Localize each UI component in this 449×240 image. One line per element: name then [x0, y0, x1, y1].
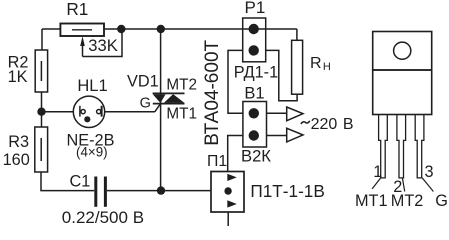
wire top rail	[42, 28, 60, 30]
svg-text:МТ2: МТ2	[391, 192, 424, 210]
svg-text:R3: R3	[8, 133, 29, 151]
connector P1	[243, 18, 266, 62]
svg-text:220: 220	[311, 116, 338, 133]
svg-text:РД1-1: РД1-1	[234, 64, 278, 82]
svg-text:Р1: Р1	[245, 0, 266, 17]
svg-text:1: 1	[373, 163, 382, 181]
wire HL1 to gate	[105, 104, 161, 112]
svg-text:C1: C1	[70, 173, 91, 191]
svg-text:В1: В1	[244, 84, 264, 102]
wire R2 to R3	[41, 92, 43, 127]
TO-220 leg 3	[415, 115, 424, 178]
leader line MT1 to leg1	[372, 178, 381, 189]
svg-text:МТ1: МТ1	[355, 192, 388, 210]
svg-text:МТ1: МТ1	[166, 106, 197, 123]
svg-text:П1: П1	[207, 153, 227, 170]
switch P1	[211, 172, 244, 213]
wire P1 to RH top	[296, 29, 298, 40]
svg-text:G: G	[140, 96, 151, 112]
resistor R2	[35, 50, 47, 92]
junction dot left rail / HL1	[37, 108, 45, 116]
svg-text:HL1: HL1	[77, 77, 107, 95]
svg-text:1K: 1K	[8, 68, 28, 86]
svg-text:R: R	[310, 55, 322, 72]
label ~220 V	[301, 121, 310, 124]
junction dot triac / bottom rail	[157, 186, 165, 194]
svg-text:VD1: VD1	[127, 73, 159, 91]
triac VD1	[153, 93, 185, 103]
svg-text:Н: Н	[323, 61, 331, 73]
wire switch bottom stub	[227, 212, 229, 226]
wiper arrow R1	[80, 36, 85, 56]
plug pin lower	[267, 128, 304, 142]
junction dot triac / top rail	[157, 25, 165, 33]
capacitor C1	[96, 177, 106, 207]
TO-220 body	[373, 70, 432, 115]
junction dot wiper / top rail	[117, 25, 125, 33]
TO-220 leg 2	[397, 115, 406, 178]
wire bottom rail right	[107, 190, 211, 192]
svg-text:160: 160	[3, 151, 30, 169]
svg-text:В2К: В2К	[241, 147, 271, 166]
svg-text:R1: R1	[66, 0, 88, 19]
svg-text:МТ2: МТ2	[166, 76, 197, 93]
svg-text:ВТА04-600Т: ВТА04-600Т	[202, 39, 223, 145]
svg-text:П1Т-1-1В: П1Т-1-1В	[250, 181, 324, 201]
svg-text:3: 3	[425, 163, 434, 181]
svg-text:0.22/500 В: 0.22/500 В	[62, 208, 144, 227]
wire wiper loop	[83, 29, 123, 57]
resistor RH	[292, 40, 303, 94]
wire bottom rail left	[41, 172, 94, 191]
potentiometer R1	[60, 24, 104, 37]
wire B1 pin2 to switch P1	[228, 136, 243, 172]
leader line MT2 to leg2	[402, 178, 404, 192]
wire HL1 left lead	[42, 111, 74, 113]
leader line G to leg3	[422, 178, 433, 192]
resistor R3	[35, 127, 48, 172]
neon lamp HL1	[73, 96, 104, 127]
svg-text:(4×9): (4×9)	[76, 145, 108, 160]
svg-text:G: G	[435, 192, 448, 210]
svg-text:В: В	[343, 116, 354, 133]
wire triac vertical	[160, 29, 162, 191]
wire left rail upper	[41, 29, 43, 50]
wire P1 pin2 to B1 pin1	[228, 50, 243, 113]
TO-220 leg 1	[379, 115, 388, 178]
svg-text:33K: 33K	[88, 36, 118, 55]
plug pin upper	[267, 107, 304, 121]
TO-220 mounting hole	[394, 42, 411, 59]
TO-220 package tab	[373, 32, 432, 71]
connector B1	[243, 102, 267, 148]
wire P1 pin2 to RH bottom	[266, 50, 297, 100]
